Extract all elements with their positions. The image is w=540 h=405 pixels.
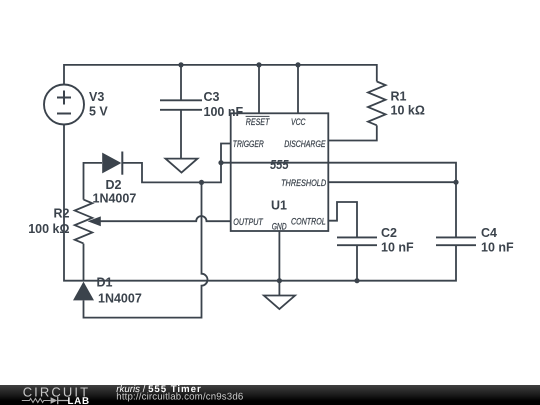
capacitor C4 plates — [436, 237, 476, 245]
ground symbol for C3 — [166, 159, 198, 173]
wire C3 bottom lead to ground — [180, 110, 182, 159]
svg-text:DISCHARGE: DISCHARGE — [284, 139, 326, 150]
resistor R2 zigzag — [75, 200, 93, 244]
potentiometer R2 wiper arrow — [88, 216, 101, 226]
wire VCC pin to top rail — [297, 65, 299, 113]
wire top rail V3 to R1 with V3 top lead — [64, 65, 377, 85]
node dot C3 top rail — [178, 62, 183, 67]
wire R2 wiper to OUTPUT pin with hop — [101, 216, 231, 221]
node dot trigger junction — [218, 160, 223, 165]
svg-text:THRESHOLD: THRESHOLD — [281, 178, 326, 189]
logo resistor and diode symbols — [22, 398, 51, 402]
node dot threshold junction — [453, 180, 458, 185]
svg-text:C4: C4 — [481, 226, 497, 240]
svg-text:10 kΩ: 10 kΩ — [391, 104, 425, 118]
svg-text:D1: D1 — [97, 276, 113, 290]
svg-text:5 V: 5 V — [89, 105, 108, 119]
wire THRESHOLD pin stub — [328, 181, 456, 183]
V3 plus sign — [57, 91, 71, 105]
wire R2 top lead to D2 anode — [84, 163, 103, 200]
svg-text:555: 555 — [270, 158, 289, 172]
capacitor C2 plates — [337, 237, 377, 245]
V3 minus sign — [57, 113, 71, 115]
wire RESET pin to top rail — [258, 65, 260, 113]
node dot GND rail — [277, 278, 282, 283]
svg-text:RESET: RESET — [246, 117, 270, 128]
diode D2 triangle — [102, 153, 121, 174]
footer bar — [0, 385, 540, 405]
svg-text:C2: C2 — [381, 226, 397, 240]
op-amp U1 555 timer box — [231, 113, 329, 231]
ground symbol for U1 GND — [264, 296, 295, 310]
wire C3 top lead — [180, 65, 182, 100]
wire GND pin to ground symbol — [278, 231, 280, 296]
svg-text:LAB: LAB — [68, 396, 90, 405]
svg-text:100 nF: 100 nF — [204, 105, 244, 119]
diode D1 triangle — [73, 282, 94, 301]
svg-text:http://circuitlab.com/cn9s3d6: http://circuitlab.com/cn9s3d6 — [116, 391, 243, 402]
wire trigger node across 555 to threshold node and C4 top — [221, 163, 456, 238]
node dot VCC rail — [295, 62, 300, 67]
voltage source V3 circle — [44, 85, 84, 125]
pin RESET overline — [246, 115, 270, 117]
svg-text:OUTPUT: OUTPUT — [233, 217, 263, 228]
wire R1 bottom lead to DISCHARGE pin — [328, 125, 377, 140]
svg-text:VCC: VCC — [291, 117, 306, 128]
svg-text:1N4007: 1N4007 — [98, 292, 142, 306]
svg-text:R2: R2 — [54, 207, 70, 221]
diode D2 cathode bar — [121, 152, 123, 175]
wire TRIGGER pin down to D2 cathode — [122, 144, 231, 183]
wire C2 bottom lead to rail — [356, 245, 358, 281]
resistor R1 zigzag — [368, 82, 386, 126]
svg-text:GND: GND — [272, 222, 287, 232]
svg-text:U1: U1 — [271, 198, 287, 212]
svg-text:100 kΩ: 100 kΩ — [28, 222, 69, 236]
svg-text:1N4007: 1N4007 — [93, 192, 137, 206]
svg-text:10 nF: 10 nF — [481, 241, 514, 255]
svg-text:TRIGGER: TRIGGER — [233, 139, 264, 150]
node dot C2 bottom rail — [354, 278, 359, 283]
svg-text:V3: V3 — [89, 90, 104, 104]
svg-text:R1: R1 — [391, 90, 407, 104]
svg-text:C3: C3 — [204, 90, 220, 104]
wire D1 anode loop up to trigger node — [84, 182, 208, 317]
capacitor C3 plates — [160, 100, 202, 110]
node dot RESET rail — [256, 62, 261, 67]
wire V3 bottom lead and bottom ground rail to C4 — [64, 125, 456, 281]
svg-text:D2: D2 — [106, 178, 122, 192]
wire R2 bottom lead to D1 cathode — [83, 244, 85, 281]
svg-text:CONTROL: CONTROL — [291, 217, 326, 228]
wire CONTROL pin to C2 top — [328, 202, 357, 237]
node dot D2 junction — [199, 180, 204, 185]
svg-text:10 nF: 10 nF — [381, 241, 414, 255]
